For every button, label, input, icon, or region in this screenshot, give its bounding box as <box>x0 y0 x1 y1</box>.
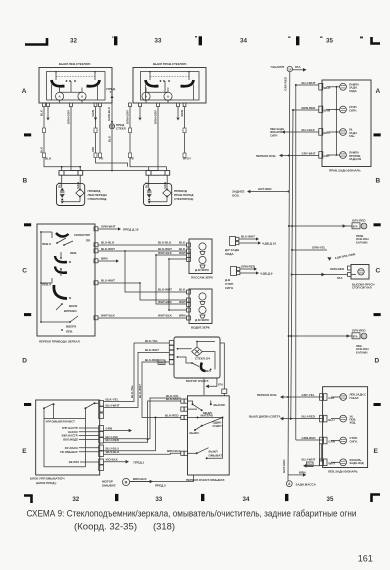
fuse symbol <box>109 124 114 129</box>
svg-text:BLK: BLK <box>58 181 62 188</box>
svg-text:BLK: BLK <box>40 146 44 153</box>
svg-text:BLK: BLK <box>45 157 52 161</box>
svg-text:ВЫСОК.: ВЫСОК. <box>214 403 226 407</box>
motor A left <box>56 92 64 100</box>
left rear lamp unit <box>320 387 368 474</box>
terminals <box>187 290 191 294</box>
svg-text:34: 34 <box>243 496 250 503</box>
lead BLK-YEL <box>104 343 170 402</box>
grid tick <box>296 36 299 45</box>
terminal GRY <box>320 394 324 401</box>
svg-text:ЛЕВ.Х: ЛЕВ.Х <box>42 283 51 287</box>
box outline <box>133 68 206 104</box>
svg-text:87A: 87A <box>295 65 301 69</box>
washer pump <box>102 477 166 488</box>
motor A left <box>142 92 150 100</box>
grid tick <box>285 494 288 501</box>
wiper motor <box>169 337 227 396</box>
svg-text:GRN-GRY: GRN-GRY <box>67 110 71 124</box>
wire BLK-WHT <box>98 250 187 252</box>
svg-text:СТЕКЛ: СТЕКЛ <box>116 126 126 130</box>
wire VIO-BLK stub <box>104 461 126 463</box>
output 87A <box>209 378 217 386</box>
svg-text:BRN: BRN <box>101 257 108 261</box>
svg-text:GRY-RED: GRY-RED <box>282 459 286 473</box>
terminal pin m1 <box>187 257 191 261</box>
contact dots <box>160 80 162 82</box>
terminal BRN <box>94 259 98 263</box>
contact arc left <box>52 80 65 86</box>
svg-text:МОТОР ОЧИСТ.: МОТОР ОЧИСТ. <box>186 379 209 383</box>
lamp tail <box>331 396 340 398</box>
svg-text:СИГН: СИГН <box>270 133 277 137</box>
mirror feed wire GRN-WHT <box>98 225 139 232</box>
svg-text:WHT-BLK: WHT-BLK <box>101 314 116 318</box>
leads <box>149 175 168 184</box>
svg-text:ПЕРЕКЛ.ОСВ: ПЕРЕКЛ.ОСВ <box>256 154 276 158</box>
svg-text:ГАБ.: ГАБ. <box>349 134 355 138</box>
stub w rect <box>99 107 101 153</box>
wire BLU-RED <box>104 401 181 442</box>
svg-text:WHT-BLK: WHT-BLK <box>158 251 173 255</box>
interconnect harness <box>104 394 194 482</box>
grid tick <box>199 36 202 45</box>
tick top small2 <box>320 37 323 38</box>
svg-text:ЛЕВ.ЗАДН.ФОНАРЬ: ЛЕВ.ЗАДН.ФОНАРЬ <box>328 470 359 474</box>
corner mark top-right <box>372 37 381 44</box>
svg-text:ПРЕД.5: ПРЕД.5 <box>155 484 166 488</box>
dashed link <box>56 76 95 78</box>
connector bar <box>59 171 83 176</box>
svg-text:Д.М ЗЕРК: Д.М ЗЕРК <box>195 318 209 322</box>
wiper motor leads <box>104 339 205 419</box>
motor up/down <box>199 293 206 300</box>
body <box>57 183 85 205</box>
stub right <box>188 72 190 81</box>
feeds to left lamp unit <box>249 393 324 468</box>
svg-text:B: B <box>23 178 28 185</box>
terminal row <box>43 103 46 107</box>
wire BRN stub <box>184 107 186 153</box>
svg-text:BLU-WHT: BLU-WHT <box>302 457 316 461</box>
lamp trunk left <box>361 333 367 339</box>
rear ground <box>282 459 317 487</box>
svg-text:BRN-RED: BRN-RED <box>302 106 317 110</box>
ground symbol <box>286 481 292 487</box>
contact arc right <box>87 80 100 86</box>
tail light feed <box>232 187 290 197</box>
svg-text:(Коорд. 32-35): (Коорд. 32-35) <box>74 522 137 533</box>
internal links <box>178 342 216 370</box>
internal drop wires <box>146 85 194 104</box>
stub left <box>55 72 57 81</box>
wire GRN-GRY center <box>71 107 158 171</box>
wire pump feed <box>130 481 150 483</box>
mirror actuator driver <box>187 289 213 330</box>
svg-text:87A: 87A <box>218 383 223 387</box>
svg-text:VIO-BLK: VIO-BLK <box>106 458 119 462</box>
contact nodes wiper motor <box>191 362 193 364</box>
motor A right <box>164 92 172 100</box>
wire BRN-BLK to switch <box>104 452 181 455</box>
svg-text:ВНИЗ: ВНИЗ <box>69 304 77 308</box>
links to motors <box>60 88 82 93</box>
svg-text:BLK-YEL: BLK-YEL <box>145 339 158 343</box>
svg-text:ВЫКЛ ПРАВ.СТЕКЛОП.: ВЫКЛ ПРАВ.СТЕКЛОП. <box>153 62 187 66</box>
terminal WHT <box>320 459 324 466</box>
wire BLU-WHT <box>98 283 187 300</box>
svg-text:C: C <box>22 267 27 274</box>
wire washer rail <box>207 418 223 459</box>
svg-text:ПР.: ПР. <box>86 239 91 243</box>
switch arm single wipe <box>202 418 223 426</box>
connector 87A left trunk <box>352 333 360 339</box>
terminal pins right pair U1 <box>94 103 97 107</box>
svg-text:СЕЛЕКТОР: СЕЛЕКТОР <box>74 233 90 237</box>
svg-text:32: 32 <box>72 496 79 503</box>
svg-text:161: 161 <box>358 554 373 564</box>
fuse 17 window circuit <box>106 87 125 171</box>
svg-text:GRN-RED: GRN-RED <box>241 265 256 269</box>
svg-text:PO: PO <box>99 157 104 161</box>
svg-text:GRY-WHT: GRY-WHT <box>302 151 316 155</box>
svg-text:GRN: GRN <box>106 427 113 431</box>
selector contacts <box>56 242 58 244</box>
svg-text:17: 17 <box>109 90 113 94</box>
svg-text:BLU-WHT: BLU-WHT <box>241 235 255 239</box>
svg-text:35: 35 <box>326 38 333 45</box>
terminal pins wiper motor <box>169 355 173 359</box>
svg-text:A: A <box>22 88 27 95</box>
window switch right U2 <box>129 62 206 107</box>
stub arrow right <box>177 107 179 117</box>
corner mark bottom-right <box>372 495 381 503</box>
svg-text:87A: 87A <box>353 225 358 229</box>
svg-text:BLU-WHT: BLU-WHT <box>106 404 120 408</box>
box outline <box>39 68 112 104</box>
svg-text:BLK-RED: BLK-RED <box>166 397 180 401</box>
controller body <box>44 419 85 467</box>
junction node <box>61 166 63 168</box>
svg-text:17: 17 <box>288 67 292 71</box>
up-down arc2 <box>55 267 67 273</box>
lamp turn <box>336 131 338 133</box>
svg-text:СТЕКЛ.ОЧ: СТЕКЛ.ОЧ <box>195 357 210 361</box>
reverse light door switch <box>225 235 276 257</box>
connector bar <box>146 171 170 176</box>
mirror wires to actuators <box>98 241 187 319</box>
terminal BRN <box>319 106 323 113</box>
margin dash <box>24 313 31 316</box>
svg-text:35: 35 <box>327 496 334 503</box>
selector arc <box>56 233 69 237</box>
washer contact <box>188 452 197 454</box>
terminals <box>169 341 173 345</box>
svg-text:ПЕРЕКЛ.ОЧИСТ./ОМЫВАТ.: ПЕРЕКЛ.ОЧИСТ./ОМЫВАТ. <box>186 478 225 482</box>
body <box>144 183 172 205</box>
svg-text:WHT: WHT <box>179 251 186 255</box>
svg-text:BLU-RED: BLU-RED <box>106 438 120 442</box>
contact arc left <box>146 80 159 86</box>
wire BRN stub <box>98 260 116 262</box>
wiper switch <box>181 396 229 482</box>
svg-text:34: 34 <box>240 38 247 45</box>
svg-text:ПРЕД.1: ПРЕД.1 <box>134 461 145 465</box>
svg-text:BLK-YEL: BLK-YEL <box>106 398 119 402</box>
svg-text:(БЛОК ПРЕД.): (БЛОК ПРЕД.) <box>36 481 56 485</box>
high stop lamp <box>291 246 375 290</box>
junction fuse wire <box>111 170 113 172</box>
svg-text:GRY-RED: GRY-RED <box>258 187 272 191</box>
svg-text:ГАБАРИТ: ГАБАРИТ <box>271 65 285 69</box>
connector to switch <box>222 389 227 394</box>
contact arc right <box>181 80 194 86</box>
lamp high stop <box>358 269 364 275</box>
svg-text:СТЕКЛОПОД.: СТЕКЛОПОД. <box>88 197 108 201</box>
svg-text:ВПРАВО: ВПРАВО <box>64 309 77 313</box>
internal switch right <box>85 403 98 419</box>
svg-text:ВОДИТ.ЗЕРК: ВОДИТ.ЗЕРК <box>191 326 210 330</box>
contacts <box>188 401 193 404</box>
arrow 87A <box>306 461 320 466</box>
svg-text:BLK-WHT: BLK-WHT <box>145 348 159 352</box>
terminal GRN <box>320 437 324 444</box>
wire BLU-BLK from stop <box>285 131 319 133</box>
wire BLU-RED <box>283 418 324 420</box>
svg-text:BLK: BLK <box>145 181 149 188</box>
svg-text:(318): (318) <box>153 522 175 533</box>
row links <box>79 428 99 462</box>
corner mark top-left <box>25 38 47 45</box>
margin dash right <box>374 223 381 226</box>
motor diamond <box>76 189 84 197</box>
motor left/right <box>199 256 206 263</box>
svg-text:BLK: BLK <box>179 288 186 292</box>
svg-text:WHT-BLK: WHT-BLK <box>158 300 173 304</box>
trunk light left <box>288 329 370 355</box>
svg-text:GRN-GRY: GRN-GRY <box>154 110 158 124</box>
svg-text:GRN-RED: GRN-RED <box>330 267 345 271</box>
svg-text:C: C <box>376 267 381 274</box>
wire GRN stub <box>104 430 129 432</box>
wire GRN-RED <box>296 439 324 441</box>
lamp trunk right <box>361 223 367 229</box>
svg-text:4-ДВ ИЛИ УНИВ: 4-ДВ ИЛИ УНИВ <box>334 252 355 260</box>
svg-text:WHT: WHT <box>179 300 186 304</box>
internal drop wires <box>52 85 98 104</box>
svg-text:СИГН: СИГН <box>225 286 233 290</box>
washer control unit <box>30 400 104 485</box>
svg-text:VIO: VIO <box>91 146 95 152</box>
wire BLU-WHT <box>296 84 319 86</box>
brn link mirrors <box>169 259 187 310</box>
contact medium speed <box>188 401 211 410</box>
svg-text:M: M <box>125 481 128 485</box>
terminal BLU-WHT <box>94 281 98 285</box>
svg-text:A: A <box>167 95 170 99</box>
tick top small3 <box>288 37 291 38</box>
contacts mid <box>60 257 62 259</box>
wire stub arrow <box>47 107 49 117</box>
svg-text:ХОДА: ХОДА <box>349 89 357 93</box>
svg-text:BLK-RED: BLK-RED <box>165 413 179 417</box>
lower links <box>56 304 78 322</box>
svg-text:4-ДВ,Д.9: 4-ДВ,Д.9 <box>260 271 273 275</box>
svg-text:BLU-BLK: BLU-BLK <box>302 128 316 132</box>
bus line 2 <box>291 110 293 420</box>
svg-text:WHT: WHT <box>324 86 331 90</box>
svg-text:ОЧИСТ: ОЧИСТ <box>213 424 224 428</box>
switch arm off <box>195 426 202 430</box>
svg-text:WHT-BLK: WHT-BLK <box>158 314 173 318</box>
svg-text:GRY: GRY <box>324 154 330 158</box>
svg-text:ВКЛ.МОДЕ: ВКЛ.МОДЕ <box>63 437 78 441</box>
svg-text:GRN-YEL: GRN-YEL <box>312 246 326 250</box>
svg-text:GRN-GRY: GRN-GRY <box>126 110 130 124</box>
svg-text:GRY-RED: GRY-RED <box>352 219 366 223</box>
svg-text:БАГАЖН: БАГАЖН <box>356 350 367 354</box>
svg-text:87A: 87A <box>307 463 312 467</box>
svg-text:BLU-RED: BLU-RED <box>302 414 316 418</box>
terminal GRY <box>319 152 323 159</box>
svg-text:A: A <box>59 95 62 99</box>
svg-text:СТОП-СИГНАЛ: СТОП-СИГНАЛ <box>352 286 372 290</box>
svg-text:ПРЕД Д.19: ПРЕД Д.19 <box>123 228 139 232</box>
stub left <box>149 72 151 81</box>
links to motors <box>146 88 168 93</box>
fuse 17 tail bus <box>271 65 307 481</box>
wire GRN-GRY center long <box>157 107 159 171</box>
svg-text:СТЕКЛОПОД.: СТЕКЛОПОД. <box>174 197 194 201</box>
svg-text:ВК.ЛИЗ: ВК.ЛИЗ <box>69 460 79 464</box>
terminal pins m2 <box>187 308 191 312</box>
svg-text:ОМЫВАТ.: ОМЫВАТ. <box>102 484 116 488</box>
svg-text:ПЕРЕКЛ ПРИВОДА ЗЕРКАЛ: ПЕРЕКЛ ПРИВОДА ЗЕРКАЛ <box>39 340 80 344</box>
lower contacts <box>61 303 63 305</box>
grid tick <box>115 494 118 501</box>
switch input pins <box>181 415 184 419</box>
terminal GRN-WHT <box>94 227 98 231</box>
dashed link <box>150 76 189 78</box>
wire pump drop <box>130 475 194 482</box>
svg-text:A: A <box>376 88 381 95</box>
lamp turn <box>331 418 340 420</box>
contact dots <box>66 80 68 82</box>
motor A right <box>78 92 86 100</box>
stub right <box>94 72 96 81</box>
svg-text:ВВЕРХ: ВВЕРХ <box>66 325 76 329</box>
svg-text:ВЫКЛ ЛЕВ.СТЕКЛОП.: ВЫКЛ ЛЕВ.СТЕКЛОП. <box>59 62 91 66</box>
svg-text:СИГН.: СИГН. <box>350 439 358 443</box>
window motor left M1 <box>57 171 108 206</box>
margin dash right <box>374 133 381 136</box>
svg-text:GRY-YEL: GRY-YEL <box>302 393 315 397</box>
svg-text:ЛЕВ.: ЛЕВ. <box>70 251 77 255</box>
lamp reverse <box>336 86 338 88</box>
svg-text:ВЫСОКО-ЯРУСН: ВЫСОКО-ЯРУСН <box>352 282 374 286</box>
feeds to right lamp unit <box>256 81 319 158</box>
svg-text:ВЫКЛ.: ВЫКЛ. <box>190 431 200 435</box>
svg-text:BRN: BRN <box>299 471 306 475</box>
wire VIO right pair <box>96 107 128 167</box>
window switch left U1 <box>39 62 112 107</box>
right rear lamp unit <box>319 80 371 173</box>
svg-text:BLU-BLK: BLU-BLK <box>101 241 115 245</box>
svg-text:ПРАВ.ЗАДН.ФОНАРЬ: ПРАВ.ЗАДН.ФОНАРЬ <box>329 169 362 173</box>
bus line 3 <box>295 85 297 440</box>
svg-text:GRN-RED: GRN-RED <box>302 436 317 440</box>
inner box <box>47 72 106 101</box>
svg-text:BLU: BLU <box>328 418 334 422</box>
svg-text:ВЫКЛ.ДНЕВН.СВЕТА: ВЫКЛ.ДНЕВН.СВЕТА <box>249 414 281 418</box>
window motor right M2 <box>144 171 195 206</box>
terminal BLU <box>319 129 323 136</box>
svg-text:БАГАЖН: БАГАЖН <box>356 240 367 244</box>
bus line 1 <box>288 72 290 481</box>
branch BRN arrow <box>288 474 303 476</box>
terminals <box>187 243 191 247</box>
frame group <box>22 36 381 503</box>
motor up/down <box>199 243 206 250</box>
stop light switch <box>225 265 273 291</box>
junction dots top <box>55 71 57 73</box>
terminal WHT-BLK <box>94 316 98 320</box>
svg-text:ОСВ.: ОСВ. <box>232 193 240 197</box>
svg-text:ОМЫВАТ: ОМЫВАТ <box>209 454 223 458</box>
svg-text:BLU: BLU <box>324 131 330 135</box>
unit output pins <box>99 432 104 438</box>
wire intermittent rail <box>188 417 223 419</box>
svg-text:87A: 87A <box>337 276 343 280</box>
svg-text:RED: RED <box>159 361 165 365</box>
svg-text:СХЕМА 9: Стеклоподъемник/зерка: СХЕМА 9: Стеклоподъемник/зеркала, омыват… <box>27 509 357 520</box>
high stop lamp body <box>351 265 369 280</box>
junction <box>147 438 149 440</box>
motor diamond <box>163 189 171 197</box>
svg-text:ЛЕВ.Х: ЛЕВ.Х <box>42 242 51 246</box>
lead BLK-WHT <box>104 352 170 407</box>
lamp stop <box>336 109 338 111</box>
wire GRY-WHT <box>282 155 319 157</box>
wire motor to switch top <box>220 343 224 389</box>
margin dash <box>24 133 31 136</box>
svg-text:BLK-WHT: BLK-WHT <box>138 384 142 398</box>
margin dash <box>24 403 31 406</box>
motor diamond <box>192 347 203 356</box>
svg-text:BRN: BRN <box>324 109 331 113</box>
svg-text:BLU-BLK: BLU-BLK <box>158 241 172 245</box>
wire BRN-RED <box>293 109 319 111</box>
svg-text:BRN-BLK: BRN-BLK <box>133 477 147 481</box>
lamp reverse <box>331 461 340 463</box>
svg-text:УПР.ОМЫВАТ/ОЧИСТ: УПР.ОМЫВАТ/ОЧИСТ <box>46 420 76 424</box>
svg-text:ЗАДН.ХОД: ЗАДН.ХОД <box>350 461 364 465</box>
svg-text:PE: PE <box>130 157 134 161</box>
svg-text:87A: 87A <box>353 335 358 339</box>
terminal BLU-BLK <box>94 243 98 247</box>
terminal BLU <box>320 415 324 422</box>
terminal WHT <box>319 83 323 90</box>
grid tick <box>114 36 117 45</box>
svg-text:33: 33 <box>155 38 162 45</box>
svg-text:BLK-WHT: BLK-WHT <box>101 247 115 251</box>
svg-text:GRN: GRN <box>328 440 335 444</box>
junction dots top <box>149 71 151 73</box>
svg-text:BLK: BLK <box>179 241 186 245</box>
svg-text:4-ДВ,Д.10: 4-ДВ,Д.10 <box>262 241 276 245</box>
svg-text:ВКЛ: ВКЛ <box>205 369 211 373</box>
caption group <box>27 509 373 564</box>
